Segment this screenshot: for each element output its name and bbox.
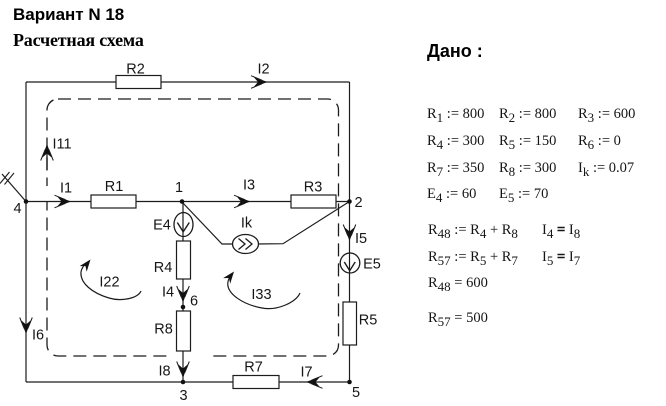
svg-text:4: 4 [13,201,21,217]
node 6 [181,294,198,310]
resistor R2 [116,62,161,89]
result R48 = 600 [428,276,488,291]
node 5 [347,380,360,401]
svg-text:6: 6 [190,294,198,310]
svg-text:I3: I3 [243,178,255,194]
svg-text:R1: R1 [105,179,124,195]
current arrow I5 [343,225,367,248]
node 2 [347,195,362,211]
resistor R3 [291,180,336,209]
svg-text:R2: R2 [126,62,145,78]
svg-text:R5: R5 [359,313,378,329]
svg-text:I5: I5 [355,231,367,247]
current arrow I2 [251,62,270,89]
equation I5 = I7 [542,250,580,265]
svg-text:I4: I4 [162,285,174,301]
resistor R4 [154,241,191,279]
node 4 [13,199,28,217]
value R7 := 350 [427,161,484,176]
equation R57 := R5 + R7 [428,250,518,265]
current arrow I1 [55,181,73,208]
value R3 := 600 [578,107,635,122]
source E5 [340,253,381,273]
svg-text:2: 2 [354,195,362,211]
wire right [349,82,351,382]
resistor R7 [233,360,279,389]
svg-text:3: 3 [179,388,187,404]
wire Ik to node2 [257,202,350,245]
svg-text:R3: R3 [304,180,323,196]
current arrow I3 [234,178,255,208]
current arrow I4 [162,285,189,303]
resistor R8 [154,311,190,351]
loop arrow I11 [46,147,48,170]
current arrow I8 [158,362,189,380]
resistor R1 [91,179,136,208]
value R6 := 0 [578,134,621,149]
svg-text:5: 5 [352,385,360,401]
dash gap patch bottom [167,350,212,362]
wire node1 to Ik [182,202,234,244]
svg-text:I6: I6 [32,328,44,344]
current arrow I7 [300,365,322,389]
node 3 [179,380,187,404]
source E4 [153,213,193,237]
equation R48 := R4 + R8 [428,223,518,238]
value R8 := 300 [499,161,556,176]
svg-text:R8: R8 [154,322,173,338]
svg-text:I1: I1 [60,181,72,197]
wire top [26,81,350,83]
current arrow I6 [20,318,44,344]
value E4 := 60 [427,187,476,202]
value Ik := 0.07 [578,161,634,176]
svg-text:R4: R4 [154,260,173,276]
wire middle horizontal node4-node2 [26,201,350,203]
svg-text:I8: I8 [158,364,170,380]
current source Ik [233,216,259,254]
svg-text:I11: I11 [52,137,71,153]
svg-text:E5: E5 [363,257,381,273]
subtitle [13,30,144,51]
equation I4 = I8 [542,223,580,238]
wire left [25,82,27,382]
wire middle vertical node1-node3 [182,202,184,383]
svg-text:I33: I33 [251,287,271,303]
title [13,5,124,25]
svg-text:E4: E4 [153,218,171,234]
value R5 := 150 [499,134,556,149]
value R2 := 800 [499,107,556,122]
resistor R5 [343,302,377,345]
svg-text:Ik: Ik [241,216,253,232]
given heading [427,41,483,62]
result R57 = 500 [428,311,488,326]
svg-text:I7: I7 [300,365,312,381]
svg-text:I22: I22 [99,275,119,291]
svg-text:R7: R7 [244,360,263,376]
loop arrow I33 [223,269,300,309]
value R1 := 800 [427,107,484,122]
svg-text:I2: I2 [257,62,269,78]
value R4 := 300 [427,134,484,149]
svg-text:1: 1 [175,180,183,196]
wire bottom [26,381,350,383]
loop I11 dashed contour [47,99,339,356]
dash gap patch left [41,186,53,202]
off-page stub at node 4 with break marks [2,174,26,202]
node 1 [175,180,184,204]
value E5 := 70 [499,187,548,202]
loop arrow I22 [80,257,141,300]
